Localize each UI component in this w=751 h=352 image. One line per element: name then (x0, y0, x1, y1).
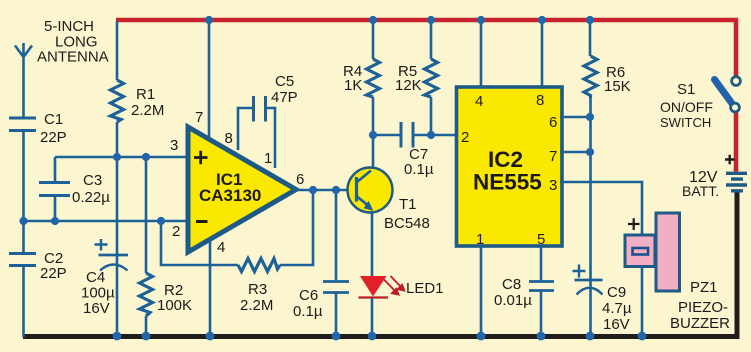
svg-text:T1: T1 (399, 196, 417, 213)
svg-text:6: 6 (549, 114, 557, 131)
wire pin4 column (209, 240, 212, 337)
capacitor C5 (254, 96, 276, 168)
node gnd C9 (586, 332, 595, 341)
node gnd pin4 (206, 332, 215, 341)
svg-text:IC2: IC2 (488, 147, 523, 172)
capacitor C1 (9, 118, 36, 221)
svg-text:0.1µ: 0.1µ (293, 303, 323, 320)
capacitor C6 (323, 190, 349, 337)
svg-text:7: 7 (195, 109, 203, 126)
IC U2 NE555 body (457, 87, 563, 246)
resistor R6 (584, 20, 597, 337)
svg-text:2.2M: 2.2M (240, 297, 273, 314)
node pin3 R1 (113, 153, 121, 161)
node R5 C7 pin2 (427, 131, 435, 139)
svg-text:ON/OFF: ON/OFF (660, 99, 713, 115)
node gnd C6 (332, 332, 341, 341)
svg-text:2.2M: 2.2M (131, 102, 164, 119)
wire ground black bottom rail (23, 192, 737, 337)
antenna (15, 43, 32, 117)
svg-text:47P: 47P (271, 89, 298, 106)
wire R3 to output (280, 190, 313, 265)
wire pin3 line (55, 156, 187, 159)
switch S1 circles (732, 77, 741, 86)
wire collector to C7 (373, 134, 401, 137)
wire pin7 (560, 151, 590, 154)
node output C6 (332, 186, 340, 194)
node rail R1? no: pin7 rail dot (205, 16, 213, 24)
resistor R4 (367, 20, 380, 170)
node antenna C1 C2 (19, 217, 27, 225)
svg-text:C4: C4 (86, 269, 105, 286)
LED LED1 triangle (360, 276, 387, 297)
svg-text:0.22µ: 0.22µ (72, 189, 110, 206)
svg-text:LED1: LED1 (406, 280, 444, 297)
svg-text:CA3130: CA3130 (199, 186, 261, 205)
wire pin8 column IC2 (541, 20, 544, 88)
svg-text:PZ1: PZ1 (690, 279, 718, 296)
node collector C7 (369, 131, 377, 139)
svg-text:C9: C9 (607, 284, 626, 301)
svg-text:4: 4 (217, 239, 225, 256)
plus sign C9 (573, 265, 586, 278)
svg-text:100µ: 100µ (81, 285, 115, 302)
transistor base bar (355, 177, 358, 202)
svg-text:NE555: NE555 (473, 170, 542, 195)
wire pin8 to C5 (238, 108, 252, 150)
svg-text:ANTENNA: ANTENNA (37, 49, 109, 66)
capacitor C7 (401, 122, 457, 148)
wire pin7 column (208, 20, 211, 140)
svg-text:C1: C1 (44, 111, 63, 128)
node C3 bottom (51, 217, 59, 225)
svg-text:PIEZO-: PIEZO- (678, 299, 728, 316)
svg-text:3: 3 (549, 177, 557, 194)
capacitor C9 (575, 280, 603, 295)
svg-text:C3: C3 (83, 172, 102, 189)
svg-text:12K: 12K (395, 77, 422, 94)
svg-text:C6: C6 (299, 287, 318, 304)
node pin2 feedback (157, 217, 165, 225)
svg-text:5: 5 (537, 231, 545, 248)
wire +V red top rail (116, 20, 736, 76)
node gnd C8 (537, 332, 546, 341)
capacitor C4 (99, 157, 129, 337)
node rail R5 (427, 16, 435, 24)
node rail pin4 IC2 (477, 16, 485, 24)
svg-text:16V: 16V (83, 300, 110, 317)
svg-text:3: 3 (170, 137, 178, 154)
wire red switch-to-battery (734, 112, 739, 172)
node gnd C4 (113, 332, 122, 341)
svg-text:C8: C8 (502, 276, 521, 293)
piezo buzzer inner bar (633, 248, 649, 255)
svg-text:0.1µ: 0.1µ (404, 161, 434, 178)
wire node pin2 line (22, 220, 187, 223)
node rail pin8 IC2 (538, 16, 546, 24)
wire LED to ground (371, 298, 374, 337)
svg-text:SWITCH: SWITCH (660, 115, 711, 130)
plus sign op-amp noninverting input (194, 151, 208, 164)
svg-text:2: 2 (461, 129, 469, 146)
plus sign buzzer (628, 218, 640, 230)
wire feedback from pin2 (161, 221, 238, 265)
LED light arrows (384, 276, 404, 295)
svg-text:1: 1 (476, 231, 484, 248)
capacitor C2 (9, 221, 36, 337)
piezo buzzer PZ1 body (656, 213, 680, 291)
svg-text:2: 2 (172, 223, 180, 240)
switch S1 lever (715, 80, 734, 106)
resistor R1 (111, 22, 124, 158)
node output feedback (309, 186, 317, 194)
svg-text:R3: R3 (248, 281, 267, 298)
capacitor C8 (529, 246, 554, 337)
wire pin1 to ground (480, 246, 483, 337)
node pin7 R6 (586, 148, 594, 156)
svg-text:4: 4 (475, 93, 483, 110)
svg-text:8: 8 (536, 92, 544, 109)
svg-text:R1: R1 (136, 86, 155, 103)
resistor R2 (140, 157, 153, 337)
plus sign battery (725, 155, 735, 164)
resistor R3 (238, 259, 280, 272)
node gnd buzzer (638, 332, 647, 341)
node rail R6 (586, 16, 594, 24)
svg-text:16V: 16V (603, 316, 630, 333)
transistor emitter arrowhead (364, 201, 374, 211)
svg-text:100K: 100K (157, 297, 192, 314)
wire output pin6 (296, 189, 358, 192)
capacitor C3 (39, 157, 70, 221)
svg-text:BATT.: BATT. (682, 183, 719, 199)
LED cathode bar (359, 296, 389, 298)
svg-text:1K: 1K (344, 77, 362, 94)
wire pin4 column IC2 (480, 20, 483, 88)
svg-text:22P: 22P (40, 129, 67, 146)
transistor Q1 T1 circle (348, 168, 393, 213)
node gnd LED (368, 332, 377, 341)
plus sign C4 (95, 239, 108, 251)
wire pin6 (560, 116, 590, 119)
svg-text:0.01µ: 0.01µ (494, 292, 532, 309)
wire buzzer to ground (641, 265, 644, 337)
svg-text:5-INCH: 5-INCH (44, 18, 94, 35)
resistor R5 (425, 20, 438, 135)
svg-text:BC548: BC548 (384, 215, 430, 232)
node gnd R2 (142, 332, 151, 341)
svg-text:22P: 22P (40, 265, 67, 282)
transistor emitter lead (357, 197, 368, 206)
op-amp U1 triangle IC1 (188, 127, 296, 252)
svg-text:S1: S1 (677, 81, 695, 98)
node rail R4 (369, 16, 377, 24)
svg-text:C5: C5 (275, 73, 294, 90)
node pin3 R2 (142, 153, 150, 161)
svg-text:8: 8 (225, 130, 233, 147)
piezo buzzer PZ1 terminal box (625, 235, 655, 267)
battery BATT bars (726, 173, 747, 191)
node gnd pin1 (477, 332, 486, 341)
svg-text:6: 6 (296, 171, 304, 188)
wire pin3 to buzzer (560, 182, 642, 236)
minus sign op-amp inverting input (196, 220, 208, 223)
transistor collector lead (357, 171, 371, 183)
svg-text:BUZZER: BUZZER (670, 315, 730, 332)
svg-text:4.7µ: 4.7µ (602, 300, 632, 317)
svg-text:1: 1 (264, 150, 272, 167)
svg-text:7: 7 (549, 148, 557, 165)
node pin6 R6 (586, 113, 594, 121)
wire emitter to LED (371, 211, 374, 276)
svg-text:15K: 15K (604, 78, 631, 95)
